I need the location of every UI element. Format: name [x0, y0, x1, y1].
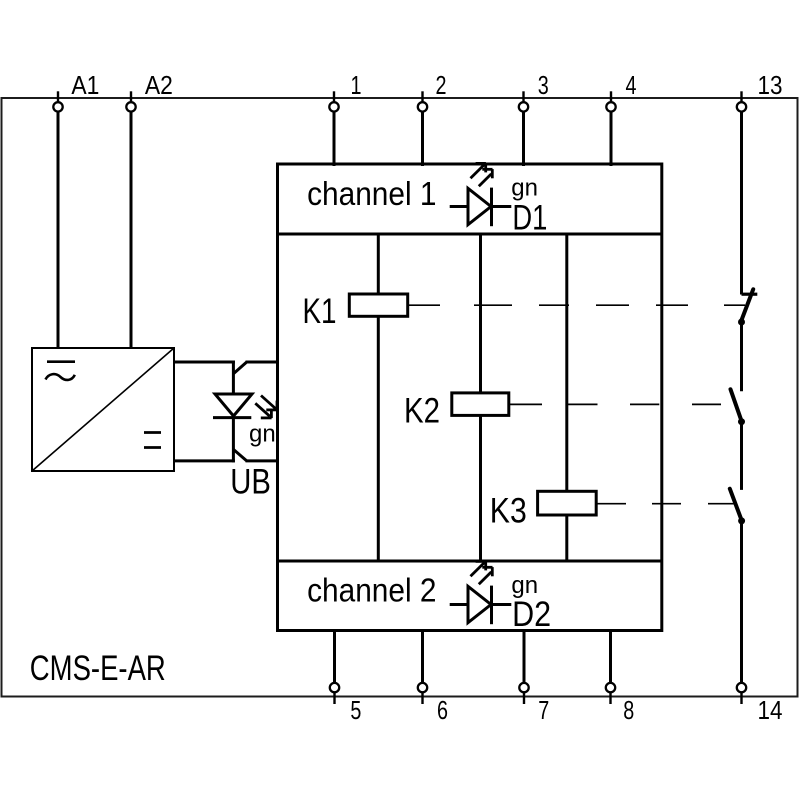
svg-text:8: 8 — [623, 695, 634, 725]
wire K1 — [377, 234, 380, 561]
svg-text:1: 1 — [351, 70, 362, 100]
terminal 3 — [519, 91, 528, 111]
svg-text:CMS-E-AR: CMS-E-AR — [30, 649, 166, 688]
wire LED branch vertical — [232, 361, 235, 463]
wire A2 — [130, 112, 133, 349]
wire rail between contact 1 and 2 — [740, 322, 743, 391]
power supply U1 (AC/DC converter) — [32, 348, 174, 471]
svg-text:D1: D1 — [512, 199, 547, 238]
wire terminal 13 rail — [740, 112, 743, 295]
wire plug jog bottom — [233, 449, 247, 461]
svg-text:7: 7 — [538, 695, 549, 725]
wire K2 — [479, 234, 482, 561]
wire terminal 1 — [333, 112, 336, 167]
wire plug jog top — [233, 362, 247, 374]
LED D2 light arrows — [471, 561, 493, 584]
wire K3 — [565, 234, 568, 561]
wire supply output bottom — [174, 459, 235, 462]
terminal 1 — [329, 91, 338, 111]
inner module box — [278, 164, 662, 631]
svg-text:K2: K2 — [404, 392, 440, 431]
relay coil K1 — [349, 294, 407, 316]
wire terminal 3 — [522, 112, 525, 167]
terminal 6 — [418, 683, 427, 704]
LED D1 — [450, 188, 512, 227]
relay coil K2 — [452, 393, 509, 416]
terminal 2 — [418, 91, 427, 111]
svg-text:channel 2: channel 2 — [307, 571, 436, 608]
wire A1 — [57, 112, 60, 349]
svg-text:A1: A1 — [71, 70, 99, 100]
wire terminal 5 — [333, 629, 336, 683]
terminal 7 — [519, 683, 528, 704]
svg-text:2: 2 — [436, 70, 447, 100]
relay coil K3 — [538, 491, 597, 515]
LED UB (supply indicator) — [213, 394, 252, 418]
contact K1 (13-14 path) — [738, 289, 757, 325]
dashed link K3 to contact — [596, 503, 735, 505]
LED D1 light arrows — [471, 163, 493, 186]
terminal 5 — [330, 683, 339, 704]
dashed link K2 to contact — [509, 403, 721, 405]
wire terminal 6 — [421, 629, 424, 683]
LED UB light arrows — [255, 396, 277, 419]
svg-text:6: 6 — [437, 695, 448, 725]
svg-text:channel 1: channel 1 — [307, 175, 436, 212]
wire terminal 2 — [421, 112, 424, 167]
svg-text:14: 14 — [758, 695, 783, 725]
svg-text:4: 4 — [626, 70, 637, 100]
svg-text:K3: K3 — [490, 492, 527, 531]
LED D2 — [450, 586, 512, 625]
svg-text:D2: D2 — [512, 595, 551, 634]
terminal A2 — [126, 91, 135, 111]
contact K3 — [730, 489, 745, 525]
svg-text:K1: K1 — [303, 292, 337, 331]
terminal A1 — [53, 91, 62, 111]
outer device border — [2, 98, 798, 697]
svg-text:5: 5 — [350, 695, 361, 725]
svg-text:A2: A2 — [145, 70, 173, 100]
wire rail between contact 2 and 3 — [740, 422, 743, 490]
terminal 4 — [606, 91, 615, 111]
terminal 13 — [737, 91, 746, 111]
terminal 8 — [606, 683, 615, 704]
svg-text:UB: UB — [230, 463, 271, 502]
contact K2 — [731, 389, 746, 425]
svg-text:3: 3 — [538, 70, 549, 100]
channel 1 box bottom line — [278, 233, 662, 236]
wire terminal 4 — [610, 112, 613, 167]
dashed link K1 to contact — [408, 304, 745, 306]
wire terminal 8 — [609, 629, 612, 683]
wire supply output top — [174, 361, 235, 364]
wire rail to terminal 14 — [740, 521, 743, 683]
svg-text:13: 13 — [758, 70, 783, 100]
channel 2 box top line — [278, 560, 662, 563]
svg-text:gn: gn — [511, 174, 538, 201]
wire terminal 7 — [523, 629, 526, 683]
terminal 14 — [737, 683, 746, 704]
svg-text:gn: gn — [249, 421, 276, 448]
